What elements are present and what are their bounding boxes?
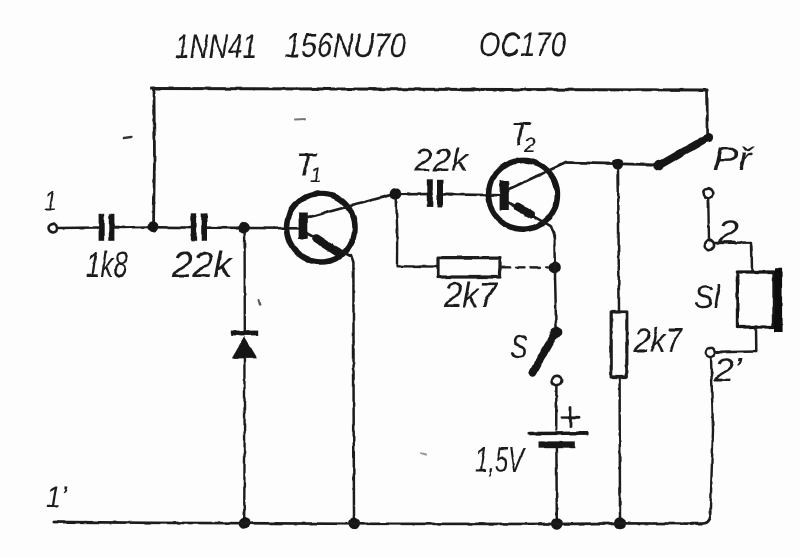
- wire node B to T1 base: [249, 227, 299, 230]
- wire C2 to node B: [208, 226, 240, 229]
- svg-text:1: 1: [310, 164, 322, 187]
- svg-text:2k7: 2k7: [443, 276, 498, 315]
- svg-text:2’: 2’: [713, 352, 743, 388]
- battery B1: [530, 408, 588, 449]
- wire bottom rail: [54, 517, 710, 524]
- resistor R2 2k7: [611, 312, 627, 377]
- wire contact to terminal 2: [707, 199, 710, 241]
- wire node E down to R2: [618, 169, 619, 311]
- diode D1: [231, 331, 258, 359]
- wire C1 to node A: [115, 226, 151, 229]
- wire top rail: [152, 89, 707, 91]
- wire speaker to terminal 2': [716, 328, 756, 353]
- speaker Sl: [737, 268, 782, 332]
- svg-text:OC170: OC170: [479, 26, 566, 64]
- svg-text:156NU70: 156NU70: [285, 27, 406, 65]
- wire node B down to diode: [243, 233, 246, 330]
- label T1: [296, 147, 322, 187]
- node A: [147, 221, 158, 232]
- svg-text:Př: Př: [713, 141, 755, 177]
- node E collector junction: [612, 158, 623, 169]
- wire T2 collector to switch: [566, 163, 655, 165]
- junction dot battery rail: [551, 518, 563, 530]
- wire left riser to node A: [154, 89, 155, 226]
- stray tick near T1: [259, 300, 261, 305]
- terminal contact circle: [703, 188, 713, 198]
- junction dot R2 rail: [614, 517, 626, 529]
- wire node A to C2: [158, 226, 190, 229]
- wire terminal 2' down to rail corner: [710, 358, 713, 518]
- switch S: [533, 327, 562, 386]
- switch Pr lever: [653, 133, 713, 171]
- wire terminal 2 to speaker: [715, 243, 753, 272]
- wire to R1 left: [397, 265, 437, 268]
- wire switch S to battery: [555, 386, 558, 430]
- capacitor C2 22k: [191, 213, 207, 241]
- stray mark dash left: [124, 137, 132, 138]
- wire node C down to feedback resistor: [396, 199, 397, 266]
- svg-text:22k: 22k: [413, 142, 470, 178]
- node B: [238, 222, 250, 234]
- svg-text:1: 1: [44, 186, 57, 216]
- wire T2 emitter down through node D to switch S: [552, 227, 557, 329]
- junction dot diode-rail: [239, 517, 251, 529]
- transistor T1: [287, 194, 395, 262]
- svg-text:1’: 1’: [46, 481, 68, 514]
- node D emitter junction: [549, 262, 561, 274]
- wire terminal 1 to C1: [58, 226, 98, 229]
- transistor T2: [489, 160, 566, 229]
- svg-text:1NN41: 1NN41: [175, 28, 257, 66]
- stray mark left of battery: [421, 453, 426, 455]
- svg-text:S: S: [510, 329, 528, 365]
- terminal 1: [49, 224, 58, 233]
- svg-text:Sl: Sl: [694, 279, 721, 315]
- node C collector junction: [390, 188, 402, 200]
- svg-text:2: 2: [717, 214, 739, 250]
- wire top rail drop to switch Pr: [706, 90, 709, 134]
- svg-text:2k7: 2k7: [633, 322, 683, 360]
- capacitor C3 22k: [427, 180, 443, 208]
- svg-text:2: 2: [523, 134, 536, 157]
- wire R2 to bottom rail: [618, 378, 621, 522]
- resistor R1 2k7 feedback: [438, 258, 500, 277]
- wire R1 right to emitter node (faded): [501, 266, 549, 269]
- wire diode to bottom rail: [243, 358, 246, 521]
- capacitor C1 1k8: [99, 214, 115, 241]
- wire node C to C3: [400, 192, 427, 195]
- svg-text:1k8: 1k8: [86, 244, 128, 285]
- junction dot T1 emitter rail: [348, 518, 360, 530]
- wire battery to bottom rail: [555, 449, 558, 522]
- svg-text:22k: 22k: [171, 244, 234, 285]
- wire C3 to T2 base: [444, 193, 500, 196]
- terminal 2: [705, 240, 715, 250]
- wire T1 emitter to bottom rail: [351, 255, 354, 521]
- stray mark above T1: [295, 118, 305, 121]
- terminal 2': [705, 348, 715, 358]
- label T2: [510, 116, 536, 157]
- svg-text:1,5V: 1,5V: [475, 441, 526, 480]
